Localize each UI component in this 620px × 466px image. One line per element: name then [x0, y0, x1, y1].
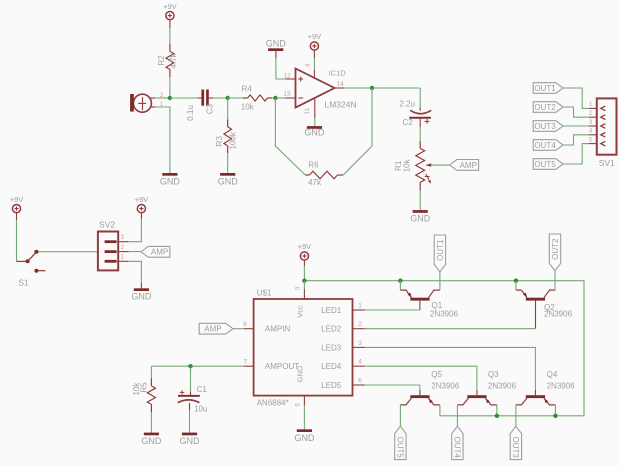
svg-text:LED4: LED4 — [321, 362, 342, 371]
potentiometer R1 10k — [394, 148, 431, 183]
wire Q4 emitter to rail — [554, 405, 556, 416]
svg-text:OUT1: OUT1 — [436, 239, 445, 261]
svg-text:Q3: Q3 — [488, 370, 499, 379]
svg-text:GND: GND — [131, 292, 152, 302]
wire Q5 emitter to rail — [439, 405, 441, 416]
svg-text:4.7k: 4.7k — [169, 52, 178, 68]
svg-text:GND: GND — [294, 433, 315, 443]
junction node Q4 emitter/rail — [553, 414, 557, 418]
svg-text:GND: GND — [266, 38, 287, 48]
svg-text:OUT4: OUT4 — [534, 141, 556, 150]
wire feedback R6 to output — [343, 88, 372, 175]
label AMP (SV2) — [141, 246, 170, 257]
svg-text:1: 1 — [358, 302, 362, 309]
svg-text:14: 14 — [337, 81, 345, 88]
label OUT2 (to SV1) — [533, 102, 563, 113]
label OUT1 (Q1) — [434, 235, 445, 272]
svg-text:C2: C2 — [402, 118, 413, 127]
svg-text:13: 13 — [283, 90, 291, 97]
label AMP (to AMPIN) — [199, 323, 233, 334]
transistor Q4 2N3906 — [516, 370, 575, 405]
svg-text:OUT1: OUT1 — [534, 84, 556, 93]
junction node Q2 emitter — [514, 279, 518, 283]
ground GND (U$1) — [294, 429, 315, 443]
svg-text:C3: C3 — [205, 103, 214, 114]
svg-text:OUT3: OUT3 — [534, 122, 556, 131]
wire output to C2 — [419, 88, 421, 111]
wire down to C1 — [190, 366, 192, 395]
wire R5 to ground — [150, 404, 152, 432]
IC U$1 AN6884 — [243, 289, 364, 408]
wire Q4 collector to OUT3 — [515, 405, 517, 426]
wire S1 to SV2 — [38, 251, 98, 253]
svg-text:LED2: LED2 — [321, 325, 342, 334]
wire +9V down to rail — [303, 260, 305, 281]
label OUT2 (Q2) — [549, 234, 560, 271]
junction node mic/R2/C3 — [168, 96, 172, 100]
svg-text:R5: R5 — [140, 382, 149, 393]
svg-text:LM324N: LM324N — [325, 100, 357, 110]
wire R1 wiper to AMP label — [431, 164, 450, 166]
wire Q1 base to LED1 — [365, 301, 420, 310]
svg-text:R6: R6 — [308, 160, 319, 169]
svg-text:GND: GND — [180, 436, 201, 446]
ground GND (mic) — [160, 173, 181, 187]
svg-text:AN6884*: AN6884* — [257, 399, 289, 408]
wire SV2 pin2 to AMP label — [129, 251, 141, 253]
label OUT3 (Q4) — [510, 426, 521, 459]
wire rail to U$1 Vcc pin — [295, 281, 304, 299]
svg-text:12: 12 — [283, 72, 291, 79]
svg-text:OUT3: OUT3 — [511, 436, 520, 458]
capacitor C1 10u (polarized) — [178, 385, 208, 413]
wire mic pin2 to junction — [155, 97, 170, 99]
label AMP (wiper) — [450, 160, 479, 171]
wire Q4 base to LED3 — [365, 347, 536, 395]
wire Q1 collector to OUT1 — [439, 272, 441, 290]
wire OUT4 to SV1 pin4 — [563, 135, 589, 145]
svg-text:IC1D: IC1D — [329, 68, 347, 77]
label OUT4 (to SV1) — [533, 140, 563, 151]
wire Q2 base to LED2 — [365, 301, 536, 329]
wire OUT5 to SV1 pin5 — [563, 144, 589, 164]
svg-text:U$1: U$1 — [257, 289, 272, 298]
wire op-amp output net — [335, 87, 421, 89]
wire Q3 base to LED4 — [365, 366, 477, 395]
svg-text:6: 6 — [358, 377, 362, 384]
wire C2 to R1 — [419, 119, 421, 149]
svg-text:OUT4: OUT4 — [453, 436, 462, 458]
wire mic pin1 to ground — [155, 107, 170, 173]
svg-text:2N3906: 2N3906 — [488, 381, 517, 390]
connector SV2 — [98, 220, 129, 271]
svg-text:AMP: AMP — [460, 161, 477, 170]
resistor R2 4.7k — [157, 51, 178, 69]
svg-text:AMP: AMP — [151, 248, 168, 257]
svg-text:2N3906: 2N3906 — [547, 381, 576, 390]
junction node AMPOUT/C1 — [188, 364, 192, 368]
svg-text:AMP: AMP — [204, 325, 221, 334]
svg-text:2N3906: 2N3906 — [430, 309, 459, 318]
transistor Q3 2N3906 — [457, 370, 516, 405]
transistor Q5 2N3906 — [400, 370, 459, 405]
svg-text:Q5: Q5 — [431, 370, 442, 379]
wire OUT3 to SV1 pin3 — [563, 125, 589, 127]
junction node output/feedback — [370, 86, 374, 90]
resistor R5 10k — [132, 382, 155, 405]
wire Q5 base to LED5 — [365, 385, 420, 395]
svg-text:OUT2: OUT2 — [551, 238, 560, 260]
svg-text:SV2: SV2 — [99, 220, 115, 230]
wire R2 to junction — [169, 69, 171, 98]
transistor Q1 2N3906 — [400, 281, 458, 319]
resistor R6 47k — [305, 160, 343, 187]
wire down to R5 — [150, 366, 152, 386]
svg-text:GND: GND — [410, 213, 431, 223]
wire op-amp ground pin — [314, 97, 316, 126]
svg-text:11: 11 — [305, 107, 311, 114]
wire OUT1 to SV1 pin1 — [563, 88, 589, 108]
svg-text:2N3906: 2N3906 — [544, 310, 573, 319]
ground GND (pin 12, inverted symbol) — [266, 38, 287, 51]
svg-text:LED5: LED5 — [321, 381, 342, 390]
svg-text:100k: 100k — [229, 131, 238, 149]
svg-text:GND: GND — [218, 177, 239, 187]
wire AMPOUT net — [151, 365, 243, 367]
ground GND (SV2) — [131, 288, 152, 301]
wire +9V to R2 — [169, 20, 171, 52]
microphone MIC — [130, 93, 164, 112]
power +9V (switch S1) — [10, 195, 24, 213]
label OUT5 (Q5) — [395, 426, 406, 459]
svg-text:Q4: Q4 — [547, 370, 558, 379]
svg-text:+9V: +9V — [298, 242, 312, 251]
svg-text:AMPOUT: AMPOUT — [265, 362, 299, 371]
svg-text:R2: R2 — [157, 55, 166, 66]
svg-text:AMPIN: AMPIN — [265, 325, 291, 334]
svg-text:0.1u: 0.1u — [186, 105, 195, 121]
svg-text:OUT2: OUT2 — [534, 103, 556, 112]
svg-text:10k: 10k — [402, 158, 411, 172]
svg-text:47k: 47k — [308, 178, 322, 187]
svg-text:+9V: +9V — [10, 195, 24, 204]
svg-text:+9V: +9V — [163, 2, 177, 11]
svg-text:2N3906: 2N3906 — [431, 381, 460, 390]
svg-text:OUT5: OUT5 — [396, 436, 405, 458]
svg-text:OUT5: OUT5 — [534, 160, 556, 169]
svg-text:+9V: +9V — [308, 32, 322, 41]
wire R4 to op-amp inverting input — [268, 97, 296, 99]
wire OUT2 to SV1 pin2 — [563, 107, 589, 117]
transistor Q2 2N3906 — [516, 281, 573, 319]
svg-text:R3: R3 — [215, 136, 224, 147]
wire junction to C3 — [170, 97, 202, 99]
wire SV2 pin3 to +9V — [129, 213, 142, 242]
junction node Vcc — [302, 279, 306, 283]
power +9V (U$1) — [298, 242, 312, 260]
op-amp IC1D LM324N — [283, 63, 356, 114]
wire Q3 collector to OUT4 — [456, 405, 458, 426]
label OUT1 (to SV1) — [533, 83, 563, 94]
power +9V (op-amp) — [308, 32, 322, 50]
label OUT4 (Q3) — [452, 426, 463, 459]
capacitor C2 2.2u (polarized) — [399, 100, 431, 127]
ground GND (R1) — [410, 210, 431, 223]
svg-text:GND: GND — [304, 128, 325, 138]
wire +9V to op-amp power pin — [313, 50, 315, 78]
switch S1 — [17, 250, 46, 288]
svg-text:SV1: SV1 — [599, 158, 615, 168]
power +9V supply (above R2) — [163, 2, 177, 20]
wire AMP label to pin 8 — [233, 328, 244, 330]
wire junction to R4 — [228, 97, 248, 99]
svg-text:8: 8 — [243, 321, 247, 328]
ground GND (C1) — [180, 433, 201, 446]
ground GND (op-amp) — [304, 126, 325, 138]
svg-text:10u: 10u — [194, 404, 207, 413]
ground GND (R5) — [141, 433, 162, 446]
svg-text:LED3: LED3 — [321, 343, 342, 352]
junction node Q1 emitter — [398, 279, 402, 283]
resistor R4 10k — [241, 84, 268, 111]
svg-text:7: 7 — [243, 358, 247, 365]
wire Q5 collector to OUT5 — [399, 405, 401, 426]
wire Q2 collector to OUT2 — [554, 271, 556, 290]
svg-text:GND: GND — [296, 365, 305, 382]
svg-text:2: 2 — [358, 321, 362, 328]
wire +9V rail (top) — [304, 281, 584, 416]
svg-text:LED1: LED1 — [321, 306, 342, 315]
wire +9V to S1 — [16, 213, 18, 262]
wire junction down to R3 — [227, 98, 229, 127]
label OUT3 (to SV1) — [533, 121, 563, 132]
connector SV1 — [589, 98, 617, 168]
ground GND (R3) — [218, 173, 239, 187]
svg-text:R4: R4 — [242, 84, 253, 93]
wire C1 to ground — [189, 403, 191, 433]
wire R1 to ground — [419, 182, 421, 210]
wire SV2 pin1 to ground — [129, 261, 142, 288]
junction node C3/R3/R4 — [226, 96, 230, 100]
svg-text:C1: C1 — [197, 385, 208, 394]
wire GND to op-amp pin 12 — [276, 51, 296, 79]
svg-text:Vcc: Vcc — [296, 305, 305, 318]
svg-text:10k: 10k — [241, 103, 255, 112]
label OUT5 (to SV1) — [533, 159, 563, 170]
svg-text:GND: GND — [160, 177, 181, 187]
svg-text:3: 3 — [358, 340, 362, 347]
wire U$1 GND pin — [296, 396, 305, 430]
junction node R4/pin13/feedback — [273, 96, 277, 100]
wire feedback from pin13 junction down — [275, 98, 305, 175]
svg-text:GND: GND — [141, 436, 162, 446]
power +9V (SV2 pin3) — [135, 195, 149, 213]
wire Q3 emitter to rail — [496, 405, 498, 416]
resistor R3 100k — [215, 127, 238, 150]
svg-text:4: 4 — [358, 359, 362, 366]
capacitor C3 0.1u — [186, 90, 215, 121]
svg-text:S1: S1 — [18, 277, 29, 287]
wire C3 to junction — [209, 97, 228, 99]
junction node Q3 emitter/rail — [495, 414, 499, 418]
svg-text:2.2u: 2.2u — [399, 100, 415, 109]
svg-text:+9V: +9V — [135, 195, 149, 204]
wire R3 to ground — [227, 146, 229, 173]
